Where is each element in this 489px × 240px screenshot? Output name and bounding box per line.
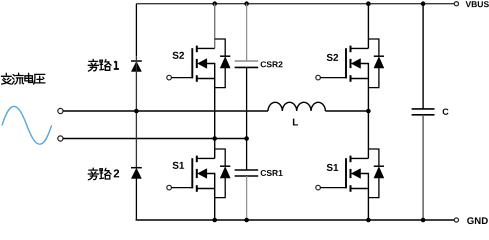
transistor S2 (left leg) channel segments [196, 46, 198, 82]
junction CSR column / GND rail [244, 218, 249, 223]
body diode of S1 (left leg) top jog [215, 149, 226, 166]
AC voltage label char 交 [1, 73, 11, 84]
bypass diode 1 cathode bar [131, 60, 142, 62]
transistor S2 (left leg) source stem [197, 78, 215, 80]
transistor S1 (right leg) gate terminal circle [316, 185, 321, 190]
transistor S2 (left leg) gate terminal circle [167, 75, 172, 80]
transistor S1 (left leg) body arrow [198, 169, 207, 178]
wire inductor to right leg midpoint [325, 110, 368, 112]
body diode of S1 (right leg) cathode bar [374, 165, 384, 167]
svg-text:2: 2 [113, 168, 119, 180]
wire CSR1 to GND [246, 176, 248, 220]
capacitor CSR1 top plate [235, 169, 259, 171]
svg-text:S1: S1 [172, 161, 185, 172]
transistor S1 (right leg) gate bar [345, 158, 347, 188]
junction right source / GND rail [366, 218, 371, 223]
GND terminal circle [454, 218, 458, 222]
svg-text:S2: S2 [326, 53, 339, 64]
body diode of S1 (left leg) bottom jog [215, 178, 226, 198]
transistor S1 (left leg) source stem [197, 188, 215, 190]
body diode of S2 (right leg) top jog [368, 39, 379, 56]
AC upper terminal circle [58, 108, 63, 113]
transistor S2 (left leg) gate wire [171, 77, 192, 79]
capacitor C bottom plate [412, 114, 435, 116]
AC voltage label char 压 [34, 74, 45, 84]
capacitor CSR2 top plate [235, 60, 259, 62]
body diode of S2 (left leg) triangle [220, 57, 230, 68]
transistor S1 (right leg) source stem [351, 188, 369, 190]
transistor S2 (right leg) channel segments [350, 46, 352, 82]
svg-text:L: L [292, 118, 298, 129]
junction VBUS / output capacitor C [421, 1, 426, 6]
transistor S1 (left leg) gate wire [171, 187, 192, 189]
junction right midpoint / inductor line [366, 109, 371, 114]
AC voltage label char 电 [25, 73, 33, 82]
bypass diode 2 triangle [132, 169, 142, 179]
transistor S1 (left leg) channel segments [196, 156, 198, 192]
wire VBUS to S2 right drain [367, 4, 369, 49]
body diode of S1 (left leg) triangle [220, 167, 230, 178]
body diode of S1 (right leg) triangle [374, 167, 384, 178]
body diode of S1 (right leg) bottom jog [368, 178, 379, 198]
wire bypass diode 2 to GND rail [135, 178, 137, 220]
wire VBUS to CSR2 [246, 4, 248, 61]
transistor S1 (right leg) gate wire [320, 187, 346, 189]
wire left midpoint to CSR1 [246, 139, 248, 171]
transistor S1 (right leg) body wire [360, 174, 368, 189]
wire VBUS rail to bypass diode 1 [135, 4, 137, 57]
transistor S1 (right leg) channel segments [350, 156, 352, 192]
wire VBUS to S2 left drain [214, 4, 216, 49]
body diode of S2 (left leg) top jog [215, 39, 226, 56]
transistor S2 (right leg) gate wire [320, 77, 346, 79]
AC lower terminal circle [58, 136, 63, 141]
junction VBUS / left drain [212, 1, 217, 6]
transistor S2 (right leg) gate bar [345, 48, 347, 78]
svg-text:C: C [442, 107, 449, 117]
wire S1 right source to GND [367, 189, 369, 221]
junction left source / GND rail [212, 218, 217, 223]
GND rail wire [136, 219, 455, 221]
junction bypass column / upper AC line [134, 109, 139, 114]
wire capacitor C to GND [422, 115, 424, 220]
VBUS rail wire [136, 3, 454, 5]
wire VBUS to capacitor C [422, 4, 424, 109]
svg-text:CSR2: CSR2 [260, 59, 283, 69]
body diode of S1 (left leg) cathode bar [220, 165, 230, 167]
transistor S2 (left leg) gate bar [191, 48, 193, 78]
bypass diode 1 triangle [132, 62, 142, 72]
bypass diode 2 cathode bar [131, 167, 142, 169]
AC sine wave symbol [2, 106, 52, 144]
capacitor CSR1 bottom plate [235, 175, 259, 177]
transistor S1 (right leg) body arrow [352, 169, 361, 178]
junction left midpoint / lower AC line [212, 136, 217, 141]
bypass diode 1 label digit 1 [114, 61, 119, 69]
transistor S2 (right leg) body arrow [352, 59, 361, 68]
bypass diode 2 label 旁 [88, 168, 98, 180]
transistor S2 (right leg) drain stem [351, 47, 369, 49]
capacitor CSR2 bottom plate [235, 66, 259, 68]
lower AC wire to left leg midpoint [63, 138, 247, 140]
body diode of S2 (right leg) triangle [374, 57, 384, 68]
svg-text:VBUS: VBUS [465, 0, 489, 9]
wire S2 right source to S1 right drain (midpoint column) [367, 79, 369, 159]
svg-text:CSR1: CSR1 [260, 168, 283, 178]
junction VBUS / right drain [366, 1, 371, 6]
body diode of S2 (left leg) cathode bar [220, 55, 230, 57]
junction VBUS / CSR2 [244, 1, 249, 6]
body diode of S2 (right leg) bottom jog [368, 68, 379, 88]
bypass diode 1 label 路 [100, 60, 111, 71]
upper AC wire to inductor [63, 110, 268, 112]
transistor S1 (left leg) gate bar [191, 158, 193, 188]
transistor S1 (left leg) gate terminal circle [167, 185, 172, 190]
transistor S2 (right leg) body wire [360, 64, 368, 79]
wire bypass diode 1 to node, crossing lower AC line [135, 56, 137, 168]
body diode of S2 (right leg) cathode bar [374, 55, 384, 57]
transistor S1 (left leg) body wire [207, 174, 215, 189]
wire S2 left source to S1 left drain (midpoint column) [214, 79, 216, 159]
transistor S2 (right leg) source stem [351, 78, 369, 80]
svg-text:GND: GND [467, 216, 488, 226]
junction output capacitor / GND rail [421, 218, 426, 223]
body diode of S1 (right leg) top jog [368, 149, 379, 166]
transistor S1 (left leg) drain stem [197, 157, 215, 159]
transistor S2 (left leg) body arrow [198, 59, 207, 68]
VBUS terminal circle [454, 2, 458, 6]
AC voltage label char 流 [12, 73, 23, 84]
transistor S1 (right leg) drain stem [351, 157, 369, 159]
bypass diode 2 label 路 [100, 168, 111, 179]
body diode of S2 (left leg) bottom jog [215, 68, 226, 88]
transistor S2 (left leg) drain stem [197, 47, 215, 49]
inductor L [268, 102, 325, 111]
svg-text:S1: S1 [326, 163, 339, 174]
capacitor C top plate [412, 108, 435, 110]
wire S1 left source to GND [214, 189, 216, 221]
transistor S2 (left leg) body wire [207, 64, 215, 79]
bypass diode 1 label 旁 [88, 59, 98, 71]
svg-text:S2: S2 [172, 51, 185, 62]
wire CSR2 to left midpoint [246, 67, 248, 138]
junction CSR column / lower AC line [244, 136, 249, 141]
transistor S2 (right leg) gate terminal circle [316, 75, 321, 80]
